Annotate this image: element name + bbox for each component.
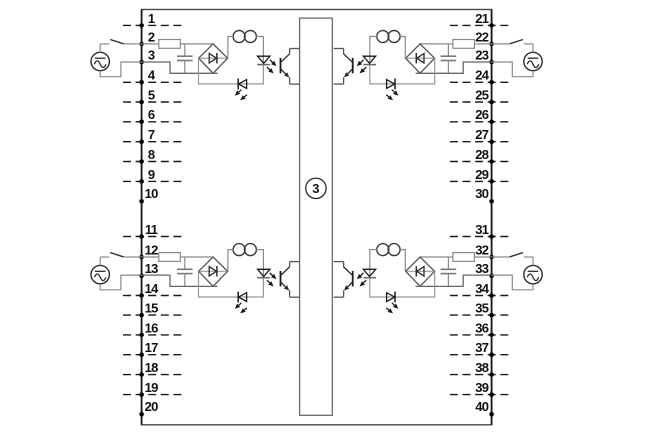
pin 15 [123,301,183,318]
pin 37 [450,340,510,357]
svg-text:14: 14 [145,281,160,296]
wire collector stub [334,48,344,50]
pin 5 [123,87,183,104]
indicator LED H4 [386,292,398,314]
svg-text:27: 27 [475,127,489,142]
wire emitter stub [334,296,344,298]
bridge rectifier V4 [406,257,435,286]
pin 16 [123,320,183,337]
barrier label 3 [306,178,326,198]
pin 3 [139,47,155,64]
AC/DC source G3 [91,265,109,283]
wire pin A to resistor [142,256,159,258]
svg-text:21: 21 [475,11,489,26]
wire source bottom return [100,62,141,77]
svg-text:32: 32 [475,242,489,257]
wire pin B to bridge bottom [416,62,492,73]
svg-text:28: 28 [475,147,489,162]
resistor R1 [159,40,181,49]
svg-text:2: 2 [148,29,155,44]
wire collector stub [290,48,300,50]
wire bridge to current source [400,250,405,272]
phototransistor T2 [344,49,353,85]
wire bridge to current source [228,250,233,272]
phototransistor T4 [344,262,353,298]
wire pin A to resistor [474,256,491,258]
pin 6 [123,107,183,124]
wire pin A to resistor [474,43,491,45]
constant current source B1 [233,31,256,43]
pin 26 [450,107,510,124]
capacitor C1 [177,44,193,73]
outer box [142,10,492,425]
svg-text:34: 34 [475,281,490,296]
pin 29 [450,167,510,184]
pin 14 [123,281,183,298]
wire emitter stub [290,83,300,85]
wire pin A to resistor [142,43,159,45]
svg-text:12: 12 [145,242,159,257]
resistor R2 [453,40,475,49]
pin 27 [450,127,510,144]
wire LED rail [199,58,264,84]
svg-text:13: 13 [145,261,159,276]
bridge rectifier V1 [199,44,228,73]
wire source top lead [100,257,109,265]
bridge rectifier V2 [406,44,435,73]
pin 10 [139,186,158,204]
capacitor C2 [441,44,457,73]
svg-text:16: 16 [145,320,159,335]
pin 4 [123,68,183,85]
left pin bus line [141,10,143,425]
phototransistor T1 [281,49,290,85]
pin 21 [450,11,510,28]
wire resistor to bridge [420,43,453,45]
AC/DC source G1 [91,52,109,70]
wire current source to opto LED [370,250,377,278]
svg-text:9: 9 [148,167,155,182]
wire pin B to bridge bottom [142,62,218,73]
switch S1 [110,40,123,44]
pin 12 [139,242,158,259]
wire current source to opto LED [370,37,377,65]
wire resistor to bridge [180,256,213,258]
svg-text:10: 10 [145,186,159,201]
svg-text:36: 36 [475,320,489,335]
pin 40 [475,399,494,417]
pin 13 [139,261,158,278]
wire source bottom return [492,62,533,77]
svg-text:3: 3 [312,181,319,196]
AC/DC source G4 [524,265,542,283]
switch S4 [510,253,523,257]
svg-text:11: 11 [145,222,158,237]
wire current source to opto LED [256,250,263,278]
svg-text:3: 3 [148,47,155,62]
indicator LED H1 [235,79,247,101]
svg-text:19: 19 [145,380,159,395]
svg-text:38: 38 [475,360,489,375]
wire bridge to current source [400,37,405,59]
svg-text:26: 26 [475,107,489,122]
switch S2 [510,40,523,44]
pin 38 [450,360,510,377]
wire source top lead [524,44,533,52]
pin 8 [123,147,183,164]
pin 32 [475,242,494,259]
svg-text:17: 17 [145,340,159,355]
pin 2 [139,29,155,46]
pin 23 [475,47,494,64]
optocoupler LED D3 [257,269,276,286]
bridge rectifier V3 [199,257,228,286]
constant current source B4 [377,244,400,256]
AC/DC source G2 [524,52,542,70]
pin 18 [123,360,183,377]
svg-text:29: 29 [475,167,489,182]
wire switch to pin [124,256,142,258]
pin 33 [475,261,494,278]
wire resistor to bridge [420,256,453,258]
pin 24 [450,68,510,85]
svg-text:30: 30 [475,186,489,201]
pin 39 [450,380,510,397]
optocoupler LED D4 [357,269,376,286]
pin 25 [450,87,510,104]
wire pin B to bridge bottom [142,275,218,286]
wire resistor to bridge [180,43,213,45]
svg-text:23: 23 [475,47,489,62]
capacitor C4 [441,257,457,286]
constant current source B2 [377,31,400,43]
svg-text:37: 37 [475,340,489,355]
pin 28 [450,147,510,164]
wire source bottom return [100,275,141,290]
optocoupler LED D2 [357,56,376,73]
svg-text:6: 6 [148,107,155,122]
pin 34 [450,281,510,298]
wire source bottom return [492,275,533,290]
capacitor C3 [177,257,193,286]
wire LED rail [370,58,435,84]
right pin bus line [491,10,493,425]
pin 9 [123,167,183,184]
phototransistor T3 [281,262,290,298]
wire current source to opto LED [256,37,263,65]
wire emitter stub [334,83,344,85]
wire pin B to bridge bottom [416,275,492,286]
isolation barrier 3 [300,18,333,415]
wire LED rail [370,271,435,297]
switch S3 [110,253,123,257]
wire switch to pin [124,43,142,45]
svg-text:33: 33 [475,261,489,276]
svg-text:15: 15 [145,301,159,316]
pin 7 [123,127,183,144]
wire emitter stub [290,296,300,298]
svg-text:22: 22 [475,29,489,44]
pin 30 [475,186,494,204]
svg-text:1: 1 [148,11,155,26]
optocoupler LED D1 [257,56,276,73]
svg-text:5: 5 [148,87,155,102]
wire switch to pin [492,43,510,45]
svg-text:7: 7 [148,127,155,142]
pin 36 [450,320,510,337]
wire bridge to current source [228,37,233,59]
svg-text:40: 40 [475,399,489,414]
wire source top lead [100,44,109,52]
constant current source B3 [233,244,256,256]
indicator LED H3 [235,292,247,314]
wire collector stub [290,261,300,263]
pin 17 [123,340,183,357]
pin 11 [123,222,183,239]
pin 20 [139,399,158,417]
svg-text:25: 25 [475,87,489,102]
svg-text:35: 35 [475,301,489,316]
svg-text:31: 31 [475,222,489,237]
indicator LED H2 [386,79,398,101]
pin 35 [450,301,510,318]
wire source top lead [524,257,533,265]
svg-text:18: 18 [145,360,159,375]
wire LED rail [199,271,264,297]
pin 19 [123,380,183,397]
svg-text:20: 20 [145,399,159,414]
svg-text:8: 8 [148,147,155,162]
svg-text:24: 24 [475,68,490,83]
resistor R4 [453,253,475,262]
svg-text:39: 39 [475,380,489,395]
resistor R3 [159,253,181,262]
wire collector stub [334,261,344,263]
pin 1 [123,11,183,28]
pin 31 [450,222,510,239]
pin 22 [475,29,494,46]
wire switch to pin [492,256,510,258]
